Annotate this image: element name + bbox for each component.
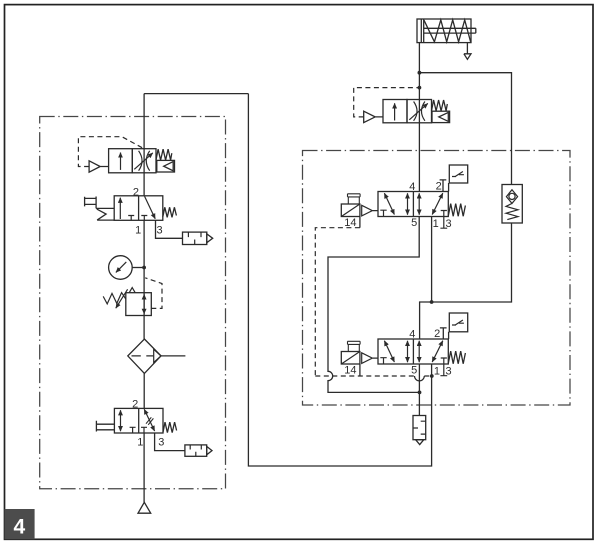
silencer S3 (vertical, at V6 port 5)	[413, 416, 426, 445]
wire: V4 port 3 to silencer S2	[155, 433, 185, 451]
svg-text:1: 1	[433, 218, 439, 230]
svg-text:2: 2	[132, 398, 138, 410]
svg-text:4: 4	[13, 516, 25, 539]
V4 plunger actuator	[96, 421, 114, 432]
svg-text:2: 2	[434, 328, 440, 340]
V5 right box flow paths	[418, 193, 420, 214]
V6 manual override	[348, 341, 361, 351]
silencer S1 (at V3 port 3)	[183, 232, 213, 244]
svg-text:1: 1	[135, 224, 141, 236]
wire: actuator line cylinder to valve V5 port 4 (through V2)	[418, 43, 420, 192]
wire: V6 port 2 blocked stub	[440, 328, 447, 339]
wire: filter bottom to valve V4	[143, 373, 145, 408]
valve V5 (3/2 pilot valve, upper, ports 4 2 14 5 1 3)	[341, 165, 467, 228]
valve V2 (2/2 flow-control cutoff valve, top right)	[364, 100, 450, 123]
svg-text:3: 3	[445, 218, 451, 230]
pilot line 14 net lower horizontal (dashed, hops under port5 line)	[315, 375, 432, 377]
svg-text:4: 4	[409, 329, 415, 341]
V3 port labels	[133, 186, 163, 236]
wire: V6 port 14 stub	[359, 364, 361, 376]
page number badge 4	[5, 509, 35, 539]
V4 spring return	[163, 422, 177, 433]
wire: check valve bottom to lower valve V6 port 4	[420, 223, 512, 339]
silencer S2 (at V4 port 3)	[185, 445, 212, 456]
V6 port labels	[344, 328, 451, 377]
cylinder A1 (single-acting, spring return)	[417, 19, 476, 59]
svg-text:4: 4	[409, 181, 415, 193]
wire: V3 port 3 to silencer S1	[156, 220, 183, 238]
pilot line of valve V1 (dashed)	[78, 137, 143, 167]
wire: gauge connection	[132, 267, 144, 269]
V5 port labels	[344, 181, 451, 230]
V6 solenoid pilot actuator	[341, 352, 360, 365]
pilot line 14 net vertical (dashed)	[315, 228, 360, 376]
V4 right box: blocked 1, flow 2-3 double with ticks	[141, 427, 147, 433]
valve V4 (3/2 manual valve, bottom left)	[96, 408, 176, 433]
V6 spring return	[448, 351, 465, 364]
wire: valve V4 to supply triangle	[143, 433, 145, 502]
svg-text:5: 5	[411, 217, 417, 229]
valve V1 (2/2 flow-control cutoff valve, top left)	[89, 149, 174, 173]
pilot line of valve V2 (dashed)	[354, 88, 420, 117]
wire: valve V6 port 5 to silencer	[418, 364, 420, 416]
V3 right box: blocked 1, flow 2-3	[141, 216, 147, 221]
V6 right box flow paths	[418, 341, 420, 362]
junction node pilot tap	[418, 86, 422, 90]
svg-text:3: 3	[445, 366, 451, 378]
wire: supply riser right side down and to lower valve port 1	[248, 94, 431, 466]
right dash-dot enclosure box	[303, 151, 571, 406]
svg-text:14: 14	[344, 217, 356, 229]
V5 spring return	[448, 204, 465, 217]
V4 left box: flow 1-2 double, blocked 3	[120, 410, 122, 431]
pressure gauge	[109, 256, 133, 280]
pressure regulator	[103, 288, 151, 316]
V5 left box flow paths	[384, 193, 394, 214]
V5 solenoid pilot actuator	[341, 204, 360, 217]
wire: V5 switch box stalk	[448, 183, 450, 192]
check valve (spring loaded), right branch	[502, 185, 522, 224]
junction node gauge tap	[142, 266, 146, 270]
regulator feedback pilot (dashed)	[145, 278, 162, 309]
junction node V5 port1	[430, 300, 434, 304]
junction node at cylinder branch	[418, 71, 422, 75]
svg-text:1: 1	[137, 436, 143, 448]
V6 limit switch box	[449, 313, 467, 332]
filter / water separator	[128, 339, 161, 373]
svg-text:2: 2	[133, 186, 139, 198]
V5 limit switch box	[449, 165, 467, 183]
svg-text:3: 3	[158, 436, 164, 448]
wire: top link from main left line to supply riser	[144, 93, 248, 95]
svg-text:2: 2	[436, 181, 442, 193]
wire: filter drain line	[161, 355, 185, 357]
wire: V5 port 2 blocked stub	[440, 180, 447, 192]
wire: valve V5 port 5 exhaust routing with hop over pilot line	[328, 217, 419, 393]
V3 manual actuator	[85, 197, 115, 221]
svg-text:1: 1	[434, 366, 440, 378]
wire: V5 port 14 stub	[359, 217, 361, 228]
V3 left box: flow 1-2, blocked 3	[119, 198, 121, 219]
V4 port labels	[132, 398, 164, 448]
wire: main left line upper segment (through timer valve V1)	[143, 94, 145, 196]
wire: branch to check valve top	[419, 73, 511, 185]
V3 spring return	[163, 207, 177, 217]
svg-text:3: 3	[156, 224, 162, 236]
wire: V6 switch box stalk	[448, 332, 450, 339]
V5 manual override	[348, 194, 361, 204]
left dash-dot enclosure box	[40, 117, 226, 489]
wire: valve V5 port 1 down to junction	[431, 217, 433, 303]
svg-text:5: 5	[411, 365, 417, 377]
svg-text:14: 14	[344, 365, 356, 377]
pilot hop arc under port-5 line	[415, 376, 425, 381]
valve V3 (3/2 manual valve, middle left)	[85, 196, 177, 221]
junction node exhaust join	[418, 391, 422, 395]
valve V6 (3/2 pilot valve, lower)	[341, 313, 467, 376]
compressed air supply triangle	[138, 502, 151, 513]
junction node pilot supply tap	[430, 374, 434, 378]
V6 left box flow paths	[384, 341, 394, 362]
wire: main left line, valve V3 to filter top	[143, 220, 145, 339]
